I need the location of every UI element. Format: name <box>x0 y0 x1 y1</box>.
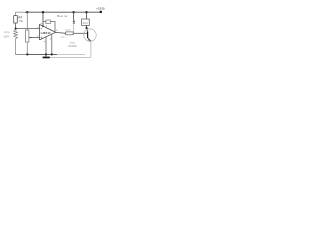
pin mark plus <box>40 37 42 39</box>
wire left drop from rail <box>15 12 17 15</box>
wire plus input line <box>31 37 39 39</box>
wire minus input line <box>16 28 40 30</box>
junction dot diode stub on rail <box>72 11 74 13</box>
junction blob pin8 <box>42 25 44 27</box>
wire corner left chain bottom <box>15 53 17 54</box>
wire stub to diode <box>73 12 75 20</box>
load K1 box <box>82 19 90 25</box>
junction dot pot bottom <box>26 53 28 55</box>
wire emitter to ground (faint) <box>50 56 91 58</box>
wire pull-up tap <box>43 21 46 23</box>
wire collector diagonal <box>87 28 88 32</box>
junction dot pot top on rail <box>26 11 28 13</box>
wire R1 bottom to node A <box>15 23 17 29</box>
svg-text:4n9: 4n9 <box>60 36 65 39</box>
wire emitter down (faint) <box>90 41 92 57</box>
wire rail to load box <box>86 12 88 19</box>
junction dot load feed on rail <box>85 11 87 13</box>
potentiometer R3 box <box>26 30 29 42</box>
transistor emitter with arrow <box>88 38 91 41</box>
wire R2 bottom to ground rail <box>15 40 17 54</box>
wire output line <box>56 31 66 34</box>
pin number specks <box>37 23 57 42</box>
svg-text:тов: тов <box>64 14 68 18</box>
wire pull-up to output <box>50 22 55 33</box>
ground rail faint tail <box>57 53 85 55</box>
svg-text:10K: 10K <box>3 34 10 38</box>
svg-text:LM311: LM311 <box>41 31 51 35</box>
svg-text:ВА1: ВА1 <box>83 22 89 25</box>
pot wiper arrow <box>29 37 31 39</box>
junction dot V+ on rail <box>42 11 44 13</box>
node VCC top rail <box>16 11 102 13</box>
ground symbol <box>45 54 47 56</box>
wire R5 to base <box>73 32 87 34</box>
svg-text:2N3906: 2N3906 <box>68 44 77 48</box>
resistor R2 zigzag <box>14 30 18 41</box>
junction dot pin4 gnd <box>51 53 53 55</box>
resistor R4 pull-up box <box>46 20 50 24</box>
svg-text:75K: 75K <box>18 19 23 23</box>
pin mark minus <box>41 27 43 30</box>
wire load to collector node <box>86 25 88 28</box>
resistor R1 (boxed, top left) <box>14 16 18 23</box>
svg-text:+12 В: +12 В <box>96 7 104 11</box>
ground rail bottom <box>16 53 29 55</box>
junction dot pin1 gnd <box>45 53 47 55</box>
svg-text:ntu: ntu <box>4 30 11 34</box>
resistor R5 base box <box>66 32 73 35</box>
junction dot collector node <box>86 27 88 29</box>
diode VD1 <box>73 21 75 23</box>
wire op-amp pin4 to ground <box>51 34 53 54</box>
wire pot bottom to ground rail <box>26 42 28 54</box>
wire diode to output line (faint) <box>73 24 75 33</box>
node A junction dot <box>15 28 17 30</box>
op-amp U1 LM311 triangle <box>40 24 56 40</box>
transistor Q1 circle <box>84 29 96 41</box>
terminal dot +12V <box>100 11 103 14</box>
wire V+ drop to op-amp pin 8 <box>42 12 44 26</box>
wire op-amp pin1 to ground <box>45 37 47 55</box>
transistor base bar <box>87 32 89 39</box>
svg-text:Вых: Вых <box>57 14 63 18</box>
wire pot drop <box>26 12 28 30</box>
